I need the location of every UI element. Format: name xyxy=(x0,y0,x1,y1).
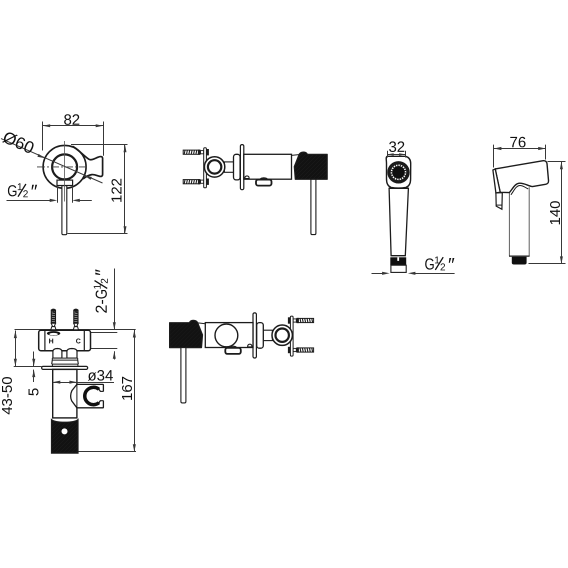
svg-text:H: H xyxy=(49,338,54,345)
svg-text:″: ″ xyxy=(448,255,455,276)
svg-text:2-: 2- xyxy=(94,299,111,313)
svg-text:76: 76 xyxy=(510,134,527,151)
svg-text:167: 167 xyxy=(119,376,136,401)
svg-text:G: G xyxy=(94,289,111,299)
svg-text:2: 2 xyxy=(440,262,446,273)
svg-text:43-50: 43-50 xyxy=(0,376,16,414)
svg-text:2: 2 xyxy=(23,189,29,200)
svg-text:G: G xyxy=(424,257,434,274)
svg-text:5: 5 xyxy=(26,388,43,396)
svg-text:140: 140 xyxy=(547,200,564,225)
svg-text:ø34: ø34 xyxy=(87,368,113,385)
svg-text:32: 32 xyxy=(388,139,405,156)
svg-text:″: ″ xyxy=(92,269,113,276)
svg-text:C: C xyxy=(76,338,81,345)
svg-text:122: 122 xyxy=(108,178,125,203)
svg-text:G: G xyxy=(7,183,17,200)
svg-text:2: 2 xyxy=(100,278,111,284)
svg-text:″: ″ xyxy=(31,182,38,203)
svg-text:82: 82 xyxy=(63,112,80,129)
